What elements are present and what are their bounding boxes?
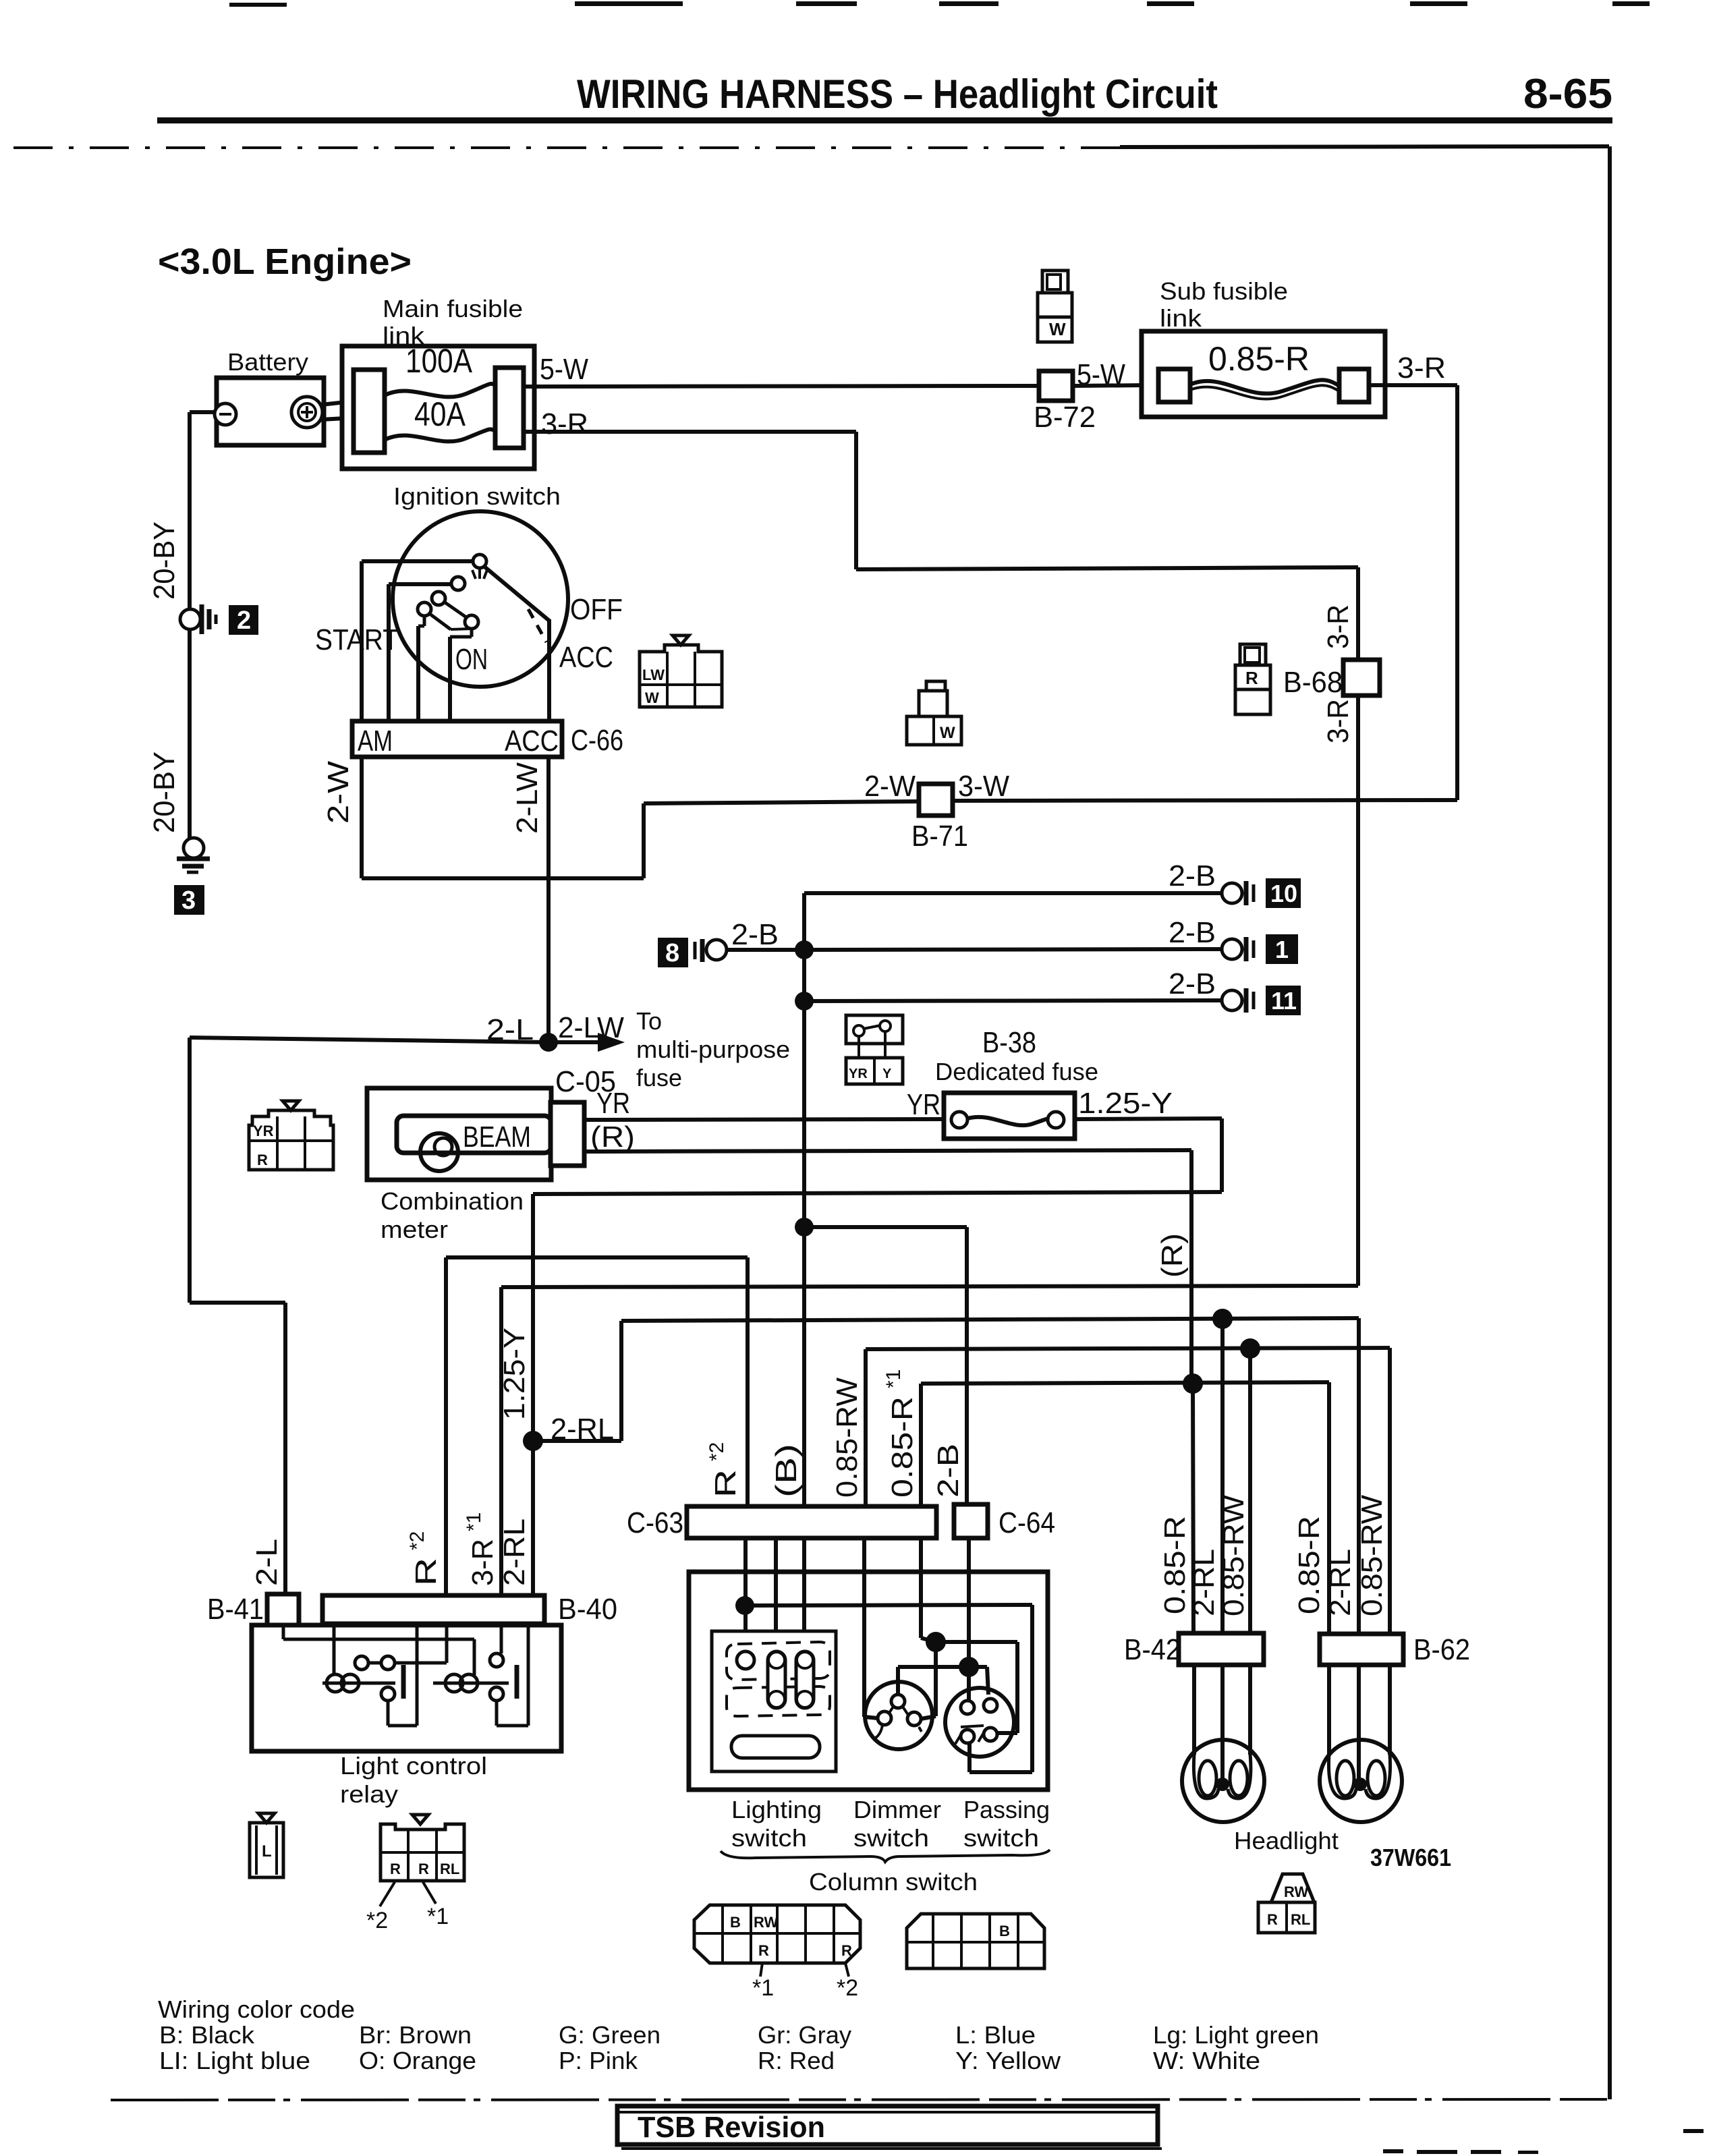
svg-text:*1: *1 <box>427 1904 449 1929</box>
svg-text:C-64: C-64 <box>999 1506 1055 1539</box>
svg-text:2-B: 2-B <box>731 918 779 951</box>
connector B-42 <box>1124 1633 1264 1666</box>
wire 2-RL down to B-40 <box>531 1441 535 1595</box>
svg-text:RW: RW <box>754 1914 778 1931</box>
svg-text:YR: YR <box>253 1123 274 1139</box>
connector icon grid LW/W (right of ignition switch) <box>640 635 722 707</box>
svg-text:B-38: B-38 <box>982 1026 1036 1059</box>
svg-text:RL: RL <box>440 1861 459 1877</box>
connector B-40 <box>322 1593 617 1626</box>
svg-text:B-68: B-68 <box>1283 666 1343 699</box>
wire 2-LW from C-66 ACC down <box>546 757 551 1042</box>
column switch connector grid A (2x6) <box>694 1905 860 1963</box>
wire 0.85-RW down to B-42 <box>1248 1349 1252 1633</box>
svg-text:W: White: W: White <box>1153 2047 1260 2074</box>
svg-text:C-66: C-66 <box>571 724 623 757</box>
svg-text:*2: *2 <box>406 1531 428 1550</box>
wire 2-RL down to B-42 <box>1220 1319 1225 1633</box>
svg-text:3-W: 3-W <box>958 770 1009 803</box>
svg-text:3-R: 3-R <box>1397 351 1446 385</box>
battery positive terminal <box>291 397 322 428</box>
wire 0.85-R down to B-42 <box>1193 1384 1193 1633</box>
fusible link element 40A (wavy) <box>385 429 497 441</box>
wire 2-RL branch to headlights <box>533 1318 1359 1634</box>
svg-text:100A: 100A <box>405 342 473 380</box>
battery <box>217 348 324 445</box>
svg-text:Lg: Light green: Lg: Light green <box>1153 2021 1319 2049</box>
wire bridge to C-66 (left) <box>418 616 424 721</box>
svg-text:2-W: 2-W <box>864 770 916 803</box>
relay 2 armature <box>515 1665 519 1699</box>
bottom-right stray dashes <box>1383 2129 1704 2154</box>
svg-text:R: Red: R: Red <box>758 2047 835 2074</box>
svg-text:meter: meter <box>381 1216 448 1243</box>
label Passing switch <box>963 1796 1050 1852</box>
svg-text:(R): (R) <box>590 1120 635 1154</box>
wire AM from pivot to C-66 <box>362 561 473 721</box>
svg-text:0.85-R: 0.85-R <box>1293 1516 1326 1614</box>
sub fusible link element (wavy) <box>1190 380 1339 393</box>
junction dot 2-RL / B-42 <box>1212 1309 1233 1329</box>
svg-text:*1: *1 <box>463 1512 485 1531</box>
svg-text:2-W: 2-W <box>322 760 355 824</box>
ignition switch pivot contact <box>472 555 487 579</box>
wire battery negative down <box>190 412 215 839</box>
svg-text:Light control: Light control <box>340 1752 487 1780</box>
svg-text:L: Blue: L: Blue <box>955 2021 1036 2049</box>
svg-text:0.85-RW: 0.85-RW <box>1355 1495 1388 1616</box>
headlight left bulb <box>1182 1665 1264 1822</box>
wire 2-L down-left to B-41 <box>190 1038 285 1595</box>
svg-text:B-41: B-41 <box>207 1593 264 1626</box>
svg-text:B-62: B-62 <box>1413 1633 1470 1666</box>
ignition switch <box>393 482 568 687</box>
connector icon grid YR/R (left of combination meter) <box>249 1101 333 1170</box>
wire 2-L horizontal <box>190 1038 549 1042</box>
lighting switch box <box>712 1631 836 1771</box>
dimmer top contact <box>888 1695 908 1715</box>
svg-text:B: B <box>730 1914 741 1931</box>
svg-text:R: R <box>410 1558 443 1586</box>
wire ACC to C-66 <box>547 619 551 721</box>
top scan artifact dashes <box>229 1 1650 7</box>
ground 2 <box>180 604 216 634</box>
svg-text:11: 11 <box>1271 987 1297 1015</box>
dedicated fuse B-38 <box>944 1093 1075 1139</box>
svg-text:W: W <box>645 689 659 706</box>
svg-text:fuse: fuse <box>636 1064 682 1091</box>
svg-text:40A: 40A <box>414 395 466 433</box>
svg-text:AM: AM <box>358 725 393 758</box>
svg-text:switch: switch <box>853 1824 929 1852</box>
2-B trunk vertical <box>802 893 806 1506</box>
svg-text:B-71: B-71 <box>911 820 968 853</box>
svg-text:3-R: 3-R <box>1322 699 1355 743</box>
svg-text:RL: RL <box>1291 1911 1310 1928</box>
svg-text:ON: ON <box>455 643 488 676</box>
svg-text:Dedicated fuse: Dedicated fuse <box>935 1058 1098 1085</box>
connector icon L (below relay) <box>250 1813 283 1877</box>
lighting switch capsule contact 3 <box>796 1651 814 1708</box>
connector C-05 <box>551 1065 616 1166</box>
junction dot 0.85-R*1 <box>926 1632 946 1652</box>
wire 0.85-RW pin to dimmer left contact <box>864 1538 878 1718</box>
connector icon W (above B-72) <box>1038 271 1072 342</box>
frame bottom edge (broken) <box>111 2099 1610 2100</box>
battery negative terminal <box>215 403 236 425</box>
relay 1 lower contact wire <box>388 1624 417 1726</box>
svg-text:20-BY: 20-BY <box>148 751 181 833</box>
svg-text:P: Pink: P: Pink <box>559 2047 638 2074</box>
column switch connector grid B (2x5) <box>907 1914 1044 1968</box>
svg-text:2-B: 2-B <box>1169 916 1216 949</box>
wire 2-B to ground 1 <box>804 949 1222 950</box>
wire (B) into lighting switch <box>802 1538 806 1654</box>
wire battery positive to fusible link (double) <box>321 402 345 420</box>
svg-text:YR: YR <box>907 1088 940 1121</box>
dimmer switch circle <box>865 1682 932 1749</box>
connector C-66 <box>352 721 623 758</box>
labels at B-42 <box>1158 1495 1250 1616</box>
wire dimmer top contact loop <box>898 1667 988 1695</box>
connector B-72 <box>1034 358 1125 434</box>
light control relay box <box>252 1625 561 1808</box>
ground 11 <box>1169 967 1301 1015</box>
svg-text:B-42: B-42 <box>1124 1633 1181 1666</box>
svg-text:YR: YR <box>596 1087 630 1120</box>
svg-text:TSB Revision: TSB Revision <box>638 2111 825 2144</box>
wire junction to dimmer right contact <box>921 1642 936 1719</box>
ground 1 <box>1169 916 1298 964</box>
svg-text:R: R <box>418 1861 429 1877</box>
fusible link element 100A (wavy) <box>385 384 497 397</box>
svg-text:Main fusible: Main fusible <box>383 295 523 322</box>
svg-text:20-BY: 20-BY <box>148 521 181 600</box>
svg-text:1.25-Y: 1.25-Y <box>498 1328 531 1420</box>
svg-text:(B): (B) <box>770 1444 803 1498</box>
svg-text:R: R <box>841 1942 852 1959</box>
lighting switch dashed contour lower <box>727 1686 830 1716</box>
brace under switches <box>721 1850 1050 1862</box>
svg-text:3-R: 3-R <box>1322 604 1355 649</box>
svg-text:R: R <box>709 1469 742 1498</box>
svg-text:2: 2 <box>237 606 251 635</box>
ground marker box 2 <box>229 605 258 635</box>
wire 3-R down through B-68 <box>501 567 1358 1595</box>
svg-text:R: R <box>1267 1911 1278 1928</box>
beam indicator bar <box>397 1116 551 1153</box>
wire 3-R from main fusible link <box>524 432 1358 569</box>
label 0.85-R*1 at C-63 <box>882 1369 919 1498</box>
ignition switch bridge contacts <box>418 592 478 629</box>
svg-text:0.85-RW: 0.85-RW <box>831 1378 864 1498</box>
svg-text:2-RL: 2-RL <box>498 1519 531 1586</box>
svg-text:R: R <box>257 1152 268 1168</box>
wire 0.85-R*1 pin to junction <box>921 1538 936 1642</box>
connector B-68 <box>1283 660 1380 699</box>
relay 2 contacts <box>490 1624 503 1701</box>
svg-text:W: W <box>940 724 955 742</box>
svg-text:5-W: 5-W <box>540 353 588 386</box>
svg-text:ACC: ACC <box>559 641 613 674</box>
svg-text:W: W <box>1049 319 1066 339</box>
connector C-64 <box>954 1504 1055 1539</box>
lighting switch dashed contour upper <box>727 1642 830 1680</box>
wire R*2 into lighting switch <box>743 1538 748 1654</box>
connector B-62 <box>1320 1633 1470 1666</box>
svg-text:switch: switch <box>963 1824 1039 1852</box>
label To multi-purpose fuse <box>636 1007 790 1091</box>
svg-text:multi-purpose: multi-purpose <box>636 1036 790 1063</box>
junction dot 2-B <box>959 1657 979 1677</box>
page header title <box>577 71 1612 117</box>
ignition switch arm to ACC side <box>484 567 549 621</box>
svg-text:2-B: 2-B <box>1169 859 1216 892</box>
svg-text:3: 3 <box>181 886 196 915</box>
ground 8 <box>658 918 779 967</box>
wire 5-W from B-72 to sub fusible link <box>1073 385 1147 386</box>
ignition switch dashed arm <box>528 609 546 642</box>
svg-text:START: START <box>315 623 399 656</box>
svg-text:YR: YR <box>849 1067 868 1081</box>
pointer lines grid A <box>760 1963 849 1977</box>
relay 2 coil <box>433 1674 509 1692</box>
svg-text:Dimmer: Dimmer <box>853 1796 941 1823</box>
lighting switch capsule contact 2 <box>768 1651 785 1708</box>
svg-text:1.25-Y: 1.25-Y <box>1078 1087 1173 1120</box>
junction dot 0.85-R / (R) / B-42 <box>1183 1373 1203 1394</box>
relay 1 contacts <box>355 1624 447 1701</box>
wire 2-B to ground 11 <box>804 1000 1222 1001</box>
headlight right bulb <box>1320 1665 1402 1822</box>
svg-text:3-R: 3-R <box>541 407 588 441</box>
svg-text:Battery: Battery <box>227 348 308 376</box>
wire 2-B from C-64 to passing switch <box>967 1538 971 1701</box>
svg-text:B: Black: B: Black <box>159 2021 255 2049</box>
svg-text:ACC: ACC <box>505 725 559 758</box>
svg-text:Gr: Gray: Gr: Gray <box>758 2021 851 2049</box>
svg-text:G: Green: G: Green <box>559 2021 660 2049</box>
frame top edge (dash-dot, scanned) <box>13 146 1609 148</box>
junction dot 1.25-Y / 2-RL <box>523 1431 543 1451</box>
svg-text:<3.0L Engine>: <3.0L Engine> <box>158 242 412 282</box>
connector icon B-38 (fuse symbol) <box>846 1015 903 1084</box>
pointer lines *2 *1 <box>380 1882 436 1906</box>
svg-text:8: 8 <box>665 939 679 967</box>
header rule <box>157 117 1612 123</box>
combination meter <box>367 1088 551 1243</box>
main fusible link <box>342 295 534 469</box>
svg-text:0.85-R: 0.85-R <box>1208 340 1310 378</box>
svg-text:*1: *1 <box>752 1975 774 2001</box>
wire R*2 from B-40 to C-63 <box>446 1257 748 1595</box>
svg-text:Wiring color code: Wiring color code <box>158 1995 355 2023</box>
svg-text:37W661: 37W661 <box>1370 1844 1451 1871</box>
frame right edge <box>1608 146 1612 2099</box>
svg-text:0.85-R: 0.85-R <box>886 1396 919 1498</box>
svg-text:B-72: B-72 <box>1034 401 1096 434</box>
svg-text:3-R: 3-R <box>466 1539 499 1586</box>
svg-text:10: 10 <box>1270 880 1297 907</box>
wire 0.85-R from C-63 up to headlights <box>921 1382 1329 1634</box>
junction dot 0.85-RW / B-42 <box>1240 1338 1260 1359</box>
column switch box <box>689 1572 1048 1896</box>
svg-text:*2: *2 <box>706 1442 728 1461</box>
svg-text:*1: *1 <box>882 1369 905 1388</box>
sub fusible link <box>1142 277 1385 417</box>
passing switch circle <box>945 1688 1014 1757</box>
passing contacts <box>955 1699 997 1744</box>
connector B-71 <box>911 784 968 853</box>
wire 2-B to ground 10 <box>804 891 1222 895</box>
svg-text:*2: *2 <box>837 1975 858 2001</box>
label Dimmer switch <box>853 1796 941 1852</box>
svg-text:2-RL: 2-RL <box>1187 1549 1220 1616</box>
label 3-R*1 at B-40 <box>463 1512 499 1586</box>
svg-text:RW: RW <box>1284 1883 1308 1900</box>
wire R*2 branch to passing switch <box>745 1605 1032 1772</box>
svg-text:0.85-RW: 0.85-RW <box>1217 1495 1250 1616</box>
wire C-63 pin2 into lighting switch <box>774 1538 778 1654</box>
svg-text:2-B: 2-B <box>1169 967 1216 1000</box>
connector B-41 <box>207 1593 299 1626</box>
svg-text:1: 1 <box>1275 936 1289 963</box>
svg-text:0.85-R: 0.85-R <box>1158 1516 1191 1614</box>
wire 0.85-RW from C-63 up to headlights <box>866 1348 1390 1634</box>
svg-text:To: To <box>636 1007 662 1035</box>
dimmer right contact <box>907 1712 924 1736</box>
connector icon R R RL (below relay) <box>381 1815 464 1881</box>
ground marker box 3 <box>174 885 204 915</box>
svg-text:Y: Y <box>882 1067 892 1081</box>
connector icon RW / R RL (bottom right) <box>1258 1874 1315 1933</box>
beam lamp <box>420 1133 458 1171</box>
svg-text:OFF: OFF <box>570 593 623 626</box>
svg-text:BEAM: BEAM <box>463 1120 531 1154</box>
wire START contact to C-66 <box>389 584 451 721</box>
svg-text:2-LW: 2-LW <box>558 1011 624 1044</box>
svg-text:Y: Yellow: Y: Yellow <box>955 2047 1061 2074</box>
junction dot trunk lower <box>795 992 814 1011</box>
svg-text:Br: Brown: Br: Brown <box>359 2021 472 2049</box>
svg-text:switch: switch <box>731 1824 807 1852</box>
arrow to multi-purpose fuse <box>549 1033 625 1052</box>
svg-text:Lighting: Lighting <box>731 1796 822 1823</box>
junction dot 2-L / 2-LW <box>539 1033 558 1052</box>
label R*2 at B-40 <box>406 1531 443 1586</box>
relay 1 armature <box>401 1665 406 1699</box>
svg-text:B: B <box>999 1923 1010 1939</box>
svg-text:R: R <box>1245 668 1258 688</box>
wire 3-R from sub fusible link <box>1369 385 1457 800</box>
svg-text:LW: LW <box>642 666 665 683</box>
ground 3 <box>177 838 210 872</box>
labels at B-62 <box>1293 1495 1388 1616</box>
junction dot trunk to C-64 branch <box>795 1218 814 1237</box>
svg-text:Ignition switch: Ignition switch <box>393 482 561 510</box>
connector C-63 <box>627 1506 936 1539</box>
lighting switch knob (pill) <box>731 1736 820 1758</box>
connector icon R (left of B-68) <box>1235 644 1270 714</box>
connector icon W (above B-71) <box>907 681 961 745</box>
svg-text:O: Orange: O: Orange <box>359 2047 476 2074</box>
wire 2-W from C-66 AM to B-71 <box>362 757 919 878</box>
svg-text:link: link <box>1160 304 1202 332</box>
svg-text:relay: relay <box>340 1780 398 1808</box>
relay 2 lower contact wire <box>497 1624 528 1726</box>
svg-text:(R): (R) <box>1156 1233 1189 1278</box>
junction dot trunk/ground8 <box>795 940 814 959</box>
svg-text:2-LW: 2-LW <box>511 762 544 834</box>
svg-text:2-L: 2-L <box>486 1013 534 1046</box>
svg-text:*2: *2 <box>366 1908 388 1933</box>
svg-text:Headlight: Headlight <box>1234 1827 1339 1854</box>
svg-text:B-40: B-40 <box>558 1593 617 1626</box>
wire YR from C-05 to dedicated fuse <box>584 1119 944 1120</box>
svg-text:2-RL: 2-RL <box>551 1413 614 1446</box>
wire 3-W from B-71 to sub fusible link riser <box>953 800 1457 801</box>
label Lighting switch <box>731 1796 822 1852</box>
ignition switch contact START <box>451 577 465 590</box>
wire 1.25-Y from fuse right, down and left <box>533 1118 1222 1441</box>
svg-text:Combination: Combination <box>381 1187 524 1215</box>
svg-text:Sub fusible: Sub fusible <box>1160 277 1288 305</box>
junction dot R*2 branch <box>735 1596 754 1615</box>
dimmer left contact <box>876 1711 891 1738</box>
label R*2 at C-63 <box>706 1442 742 1498</box>
wire junction to passing bottom-right contact <box>936 1642 1017 1733</box>
svg-text:C-63: C-63 <box>627 1506 683 1539</box>
wiring color code legend <box>158 1995 1319 2074</box>
svg-text:Column switch: Column switch <box>809 1868 978 1896</box>
wire 2-B from ground 8 to trunk <box>727 948 804 952</box>
ground 10 <box>1169 859 1301 908</box>
svg-text:2-L: 2-L <box>250 1539 283 1586</box>
wire R from C-05 right <box>584 1150 1191 1384</box>
svg-text:R: R <box>390 1861 401 1877</box>
svg-text:8-65: 8-65 <box>1523 71 1612 117</box>
svg-text:Passing: Passing <box>963 1796 1050 1823</box>
svg-text:2-B: 2-B <box>932 1444 965 1498</box>
relay internal feed from B-41 <box>283 1625 474 1675</box>
relay 1 coil <box>322 1624 395 1692</box>
svg-text:R: R <box>758 1942 769 1959</box>
svg-text:2-RL: 2-RL <box>1324 1549 1357 1616</box>
svg-text:L: L <box>262 1842 272 1861</box>
svg-text:WIRING HARNESS – Headlight Cir: WIRING HARNESS – Headlight Circuit <box>577 72 1218 117</box>
lighting switch contact 1 <box>737 1651 754 1669</box>
wire 2-B branch to C-64 <box>804 1227 967 1504</box>
TSB revision box <box>617 2106 1162 2149</box>
wire 5-W from main fusible link to B-72 <box>524 386 1039 387</box>
svg-text:LI: Light blue: LI: Light blue <box>159 2047 310 2074</box>
wire ON contact to C-66 <box>450 629 472 721</box>
